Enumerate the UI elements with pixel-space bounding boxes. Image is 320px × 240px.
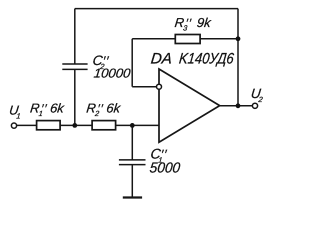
wire R2 to op-amp non-inverting input — [116, 124, 159, 126]
wire C1 branch vertical upper — [131, 125, 133, 159]
label op-amp DA K140UD6 — [150, 50, 235, 67]
label C1 designator — [150, 146, 168, 165]
label R3 value — [174, 15, 213, 33]
resistor R3 — [175, 35, 200, 44]
label U2 — [250, 86, 264, 104]
junction node R3/right column — [236, 36, 241, 41]
inversion circle on inverting input — [157, 84, 162, 89]
label U1 — [8, 102, 21, 120]
capacitor C2 — [62, 64, 87, 69]
wire C2 branch upper vertical — [74, 9, 76, 64]
label R1 value — [29, 100, 66, 118]
capacitor C1 — [119, 160, 146, 165]
wire to inverting input — [132, 86, 156, 88]
svg-text:DA: DA — [150, 50, 173, 67]
op-amp DA triangle — [159, 69, 220, 142]
junction node output — [236, 103, 241, 108]
ground — [123, 196, 142, 198]
wire R3 feedback horizontal right — [200, 38, 238, 40]
svg-text:5000: 5000 — [149, 160, 182, 176]
label R2 value — [86, 100, 123, 118]
junction node R2/C1/op-amp — [130, 123, 135, 128]
wire C1 to ground — [131, 165, 133, 197]
wire right column vertical — [237, 9, 239, 106]
wire R1 to R2 — [60, 124, 92, 126]
wire C2 branch lower vertical — [74, 69, 76, 125]
wire feedback vertical to inverting input — [131, 39, 133, 87]
resistor R1 — [37, 121, 61, 130]
svg-text:10000: 10000 — [93, 66, 132, 81]
wire output — [220, 105, 253, 107]
label C2 designator — [92, 53, 110, 71]
wire top feedback horizontal — [75, 8, 238, 10]
wire input from U1 to R1 — [17, 124, 37, 126]
terminal U1 circle — [11, 123, 16, 128]
wire R3 feedback horizontal left — [132, 38, 175, 40]
junction node R1/R2/C2 — [72, 123, 77, 128]
svg-text:K140УД6: K140УД6 — [178, 50, 235, 67]
terminal U2 circle — [252, 103, 257, 108]
resistor R2 — [92, 121, 116, 130]
